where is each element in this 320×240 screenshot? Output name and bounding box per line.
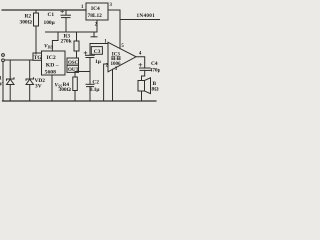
pin box TG bbox=[33, 53, 42, 60]
resistor R2 bbox=[34, 10, 39, 54]
IC2 KD-5608 box bbox=[42, 51, 66, 75]
svg-text:300Ω: 300Ω bbox=[59, 87, 72, 93]
svg-text:OUT: OUT bbox=[68, 68, 80, 73]
ground symbol bbox=[91, 32, 97, 37]
svg-text:KD –: KD – bbox=[46, 62, 59, 68]
wire VSS drop bbox=[51, 75, 53, 101]
wire V+ vertical to amp pin5 bbox=[119, 10, 121, 49]
resistor R3 bbox=[74, 32, 79, 58]
svg-text:OSC: OSC bbox=[68, 61, 79, 66]
svg-text:C1: C1 bbox=[48, 12, 55, 18]
svg-text:5608: 5608 bbox=[45, 70, 57, 76]
wire VDD jog bbox=[52, 32, 58, 51]
wire bottom rail bbox=[3, 100, 157, 102]
resistor R4 bbox=[73, 77, 78, 101]
svg-text:0.1μ: 0.1μ bbox=[90, 87, 100, 93]
svg-text:V: V bbox=[0, 81, 3, 87]
zener diode VD1 bbox=[7, 60, 15, 101]
wire amp pin2 bbox=[104, 64, 108, 101]
op-amp IC3 triangle bbox=[108, 42, 136, 72]
svg-text:3V: 3V bbox=[35, 84, 42, 90]
text labels bbox=[0, 3, 161, 93]
speaker BL bbox=[138, 78, 151, 101]
svg-text:8Ω: 8Ω bbox=[152, 87, 160, 93]
svg-text:C4: C4 bbox=[151, 61, 158, 67]
svg-text:470μ: 470μ bbox=[150, 68, 161, 74]
zener diode VD2 bbox=[26, 60, 34, 101]
wire amp pin3 bbox=[112, 69, 114, 101]
wire IC4 pin3 output bbox=[108, 9, 120, 11]
svg-text:TG: TG bbox=[34, 55, 43, 61]
svg-text:1μ: 1μ bbox=[95, 59, 101, 65]
wire top rail bbox=[2, 9, 86, 11]
wire amp pin1 input bbox=[90, 43, 108, 45]
label box C3 bbox=[91, 47, 102, 55]
svg-text:1N4001: 1N4001 bbox=[137, 13, 156, 19]
IC4 box bbox=[86, 3, 108, 20]
svg-text:270k: 270k bbox=[61, 39, 72, 45]
svg-text:C3: C3 bbox=[94, 49, 101, 55]
wire mid rail bbox=[46, 31, 98, 33]
label IC3 chinese glyphs bbox=[111, 56, 120, 60]
capacitor C3 bbox=[84, 44, 94, 85]
capacitor C1 bbox=[61, 10, 71, 32]
wire IC4 pin2 ground drop bbox=[96, 20, 98, 32]
pin box OSC bbox=[67, 58, 79, 65]
svg-text:IC2: IC2 bbox=[47, 55, 56, 61]
svg-text:IC4: IC4 bbox=[91, 6, 100, 12]
capacitor C2 bbox=[86, 84, 94, 101]
svg-text:C2: C2 bbox=[92, 79, 99, 85]
pin box OUT bbox=[67, 65, 79, 72]
svg-text:300Ω: 300Ω bbox=[20, 20, 33, 26]
wire amp output pin4 bbox=[136, 57, 145, 68]
terminal input jack bbox=[2, 54, 5, 101]
wire 1N4001 branch to right edge bbox=[120, 19, 160, 21]
capacitor C4 bbox=[139, 63, 150, 80]
svg-text:1006: 1006 bbox=[111, 62, 122, 67]
svg-text:78L12: 78L12 bbox=[88, 13, 103, 19]
wire TG input bbox=[5, 59, 33, 61]
wire OUT pin bbox=[75, 72, 90, 78]
svg-text:100μ: 100μ bbox=[44, 20, 55, 26]
